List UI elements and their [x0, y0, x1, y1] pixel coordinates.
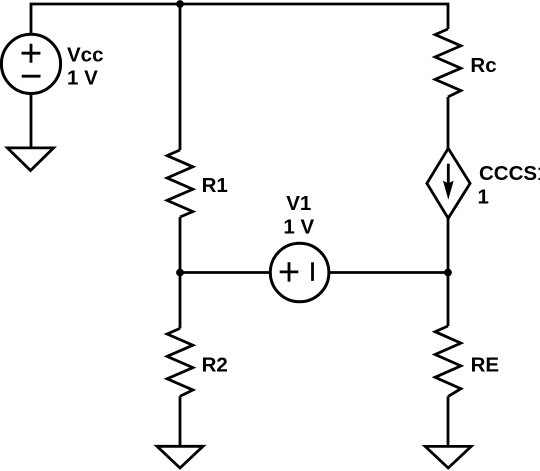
resistor Rc [435, 29, 461, 97]
svg-text:1: 1 [478, 186, 489, 209]
svg-text:Vcc: Vcc [67, 43, 103, 66]
label Rc [470, 54, 496, 77]
resistor R1 [167, 150, 193, 217]
svg-text:R1: R1 [202, 174, 228, 197]
node B (left mid junction) [176, 269, 184, 277]
current source CCCS1 (diamond) [427, 148, 470, 218]
node A (top junction) [176, 0, 184, 8]
label Vcc 1 V [67, 43, 103, 89]
node C (right mid junction) [444, 269, 452, 277]
voltage source V1 [270, 243, 329, 302]
wire R1 to node B [179, 217, 182, 273]
resistor RE [435, 326, 461, 397]
wire node B to R2 [179, 273, 182, 329]
svg-text:R2: R2 [202, 354, 228, 377]
ground (below Vcc) [7, 148, 53, 171]
label CCCS1 1 [478, 162, 540, 208]
svg-text:Rc: Rc [470, 54, 496, 77]
wire Vcc to ground [30, 94, 33, 148]
wire R2 to ground [179, 396, 182, 446]
svg-text:V1: V1 [286, 192, 311, 215]
svg-text:RE: RE [471, 353, 499, 376]
wire CCCS1 to node C [447, 218, 450, 272]
wire top rail to R1 [179, 4, 182, 150]
label R1 [202, 174, 228, 197]
svg-text:1 V: 1 V [67, 67, 98, 90]
ground (below R2) [157, 446, 203, 468]
label R2 [202, 354, 228, 377]
label V1 1 V [283, 192, 314, 239]
voltage source Vcc [1, 34, 60, 93]
ground (below RE) [425, 446, 471, 468]
wire node B to V1 [180, 271, 270, 274]
svg-text:CCCS1: CCCS1 [479, 162, 540, 185]
wire node C to RE [447, 273, 450, 327]
wire Rc to CCCS1 [447, 97, 450, 148]
wire V1 to node C [329, 271, 448, 274]
resistor R2 [167, 328, 193, 396]
wire RE to ground [447, 397, 450, 446]
label RE [471, 353, 499, 376]
wire top rail [31, 4, 448, 34]
svg-text:1 V: 1 V [283, 215, 314, 238]
